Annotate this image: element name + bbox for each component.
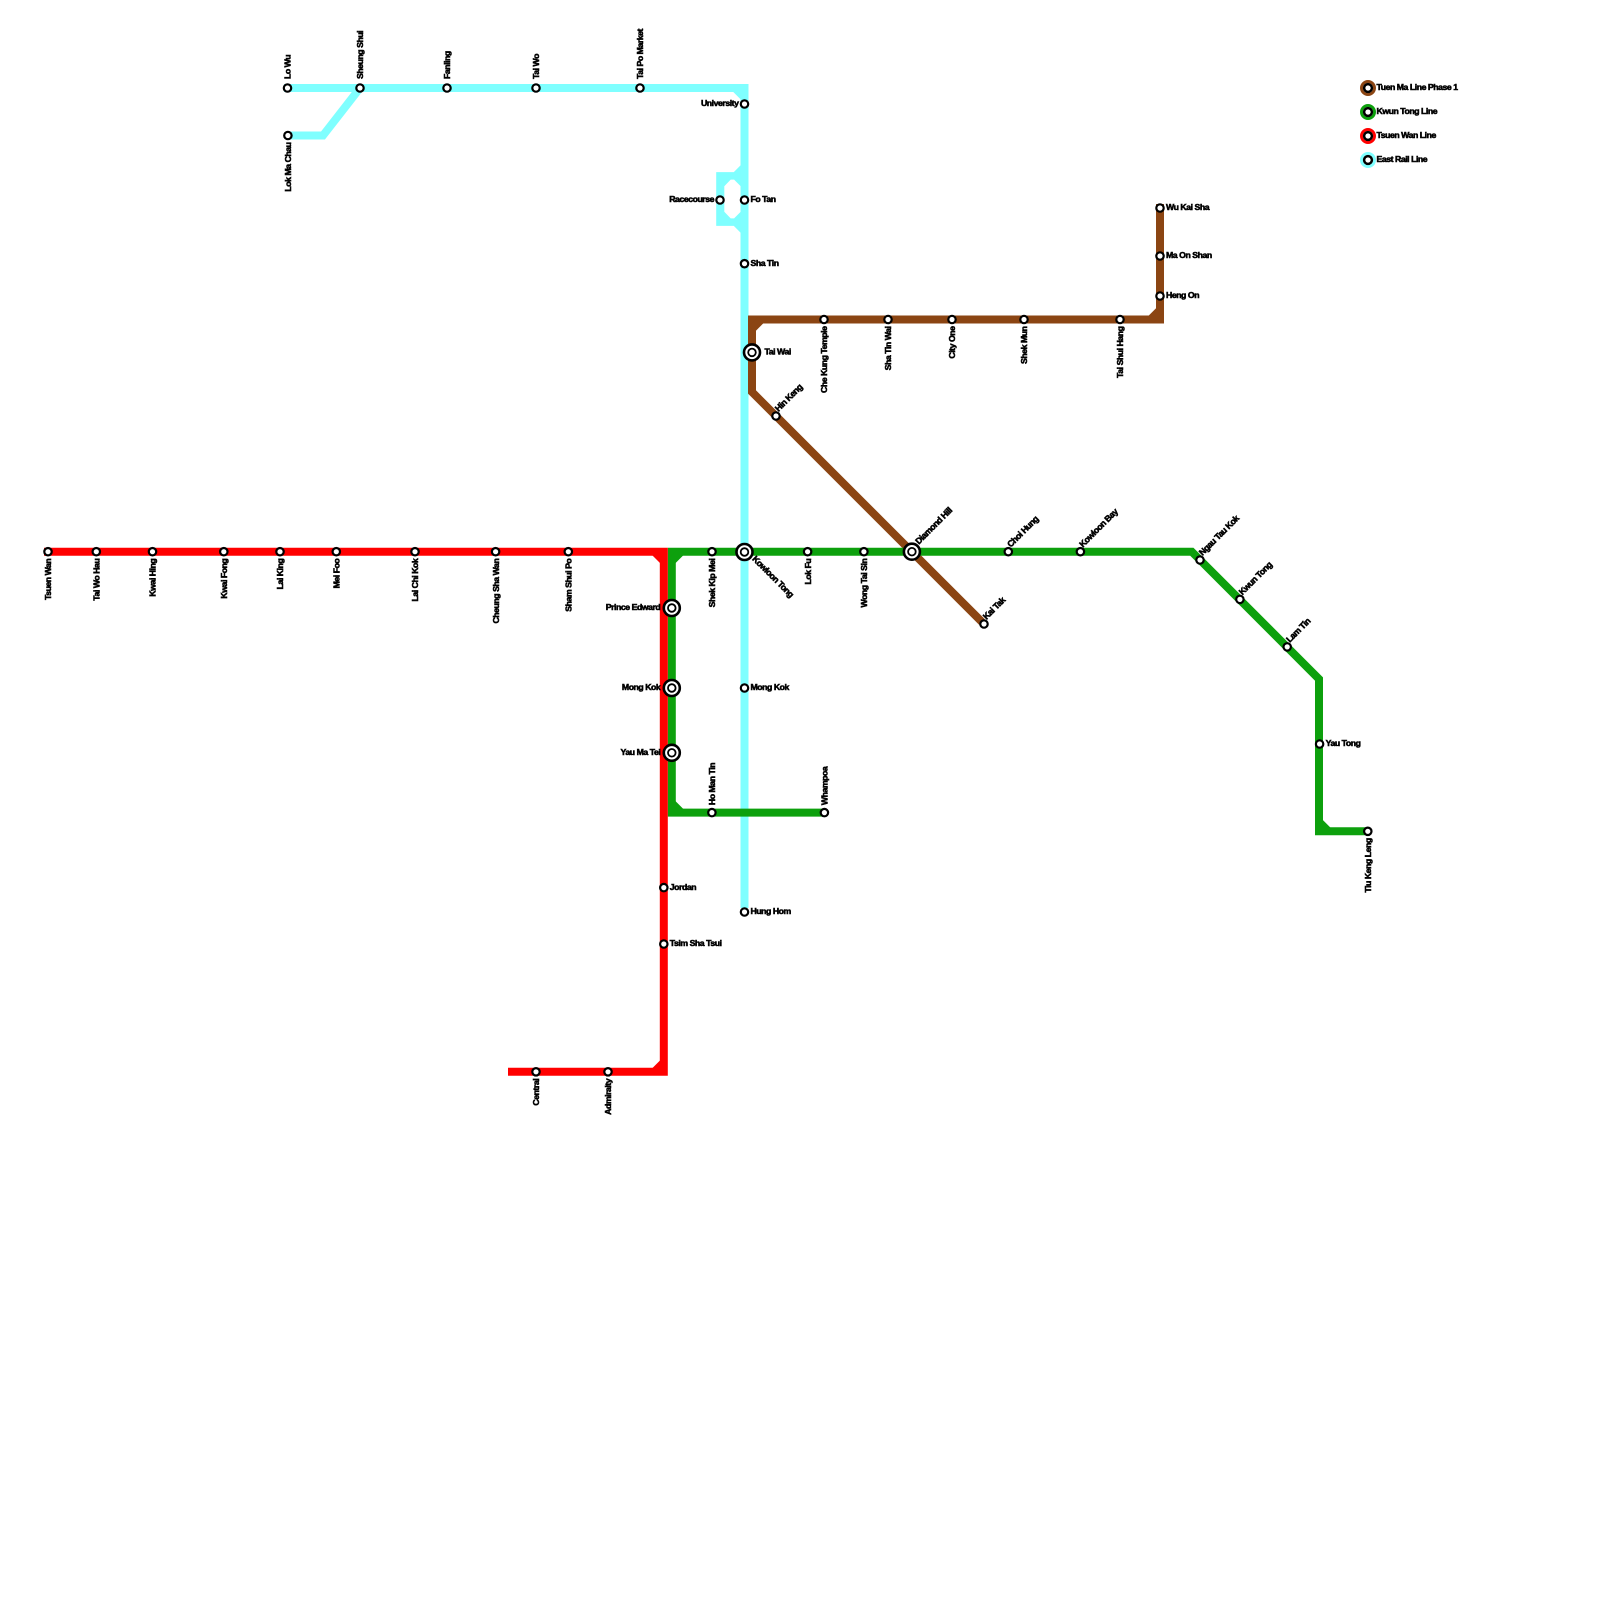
svg-text:Lai King: Lai King — [275, 559, 285, 590]
svg-text:Lok Fu: Lok Fu — [803, 559, 813, 585]
svg-text:Tsuen Wan Line: Tsuen Wan Line — [1377, 130, 1437, 140]
svg-text:Sham Shui Po: Sham Shui Po — [564, 559, 574, 612]
svg-text:Hung Hom: Hung Hom — [751, 906, 792, 916]
svg-text:Sha Tin: Sha Tin — [751, 258, 779, 268]
svg-text:Ngau Tau Kok: Ngau Tau Kok — [1197, 513, 1242, 558]
svg-text:Lok Ma Chau: Lok Ma Chau — [283, 142, 293, 191]
svg-text:Mong Kok: Mong Kok — [622, 682, 661, 692]
svg-text:Kwai Fong: Kwai Fong — [219, 559, 229, 599]
svg-text:Tuen Ma Line Phase 1: Tuen Ma Line Phase 1 — [1377, 82, 1459, 92]
svg-text:Shek Kip Mei: Shek Kip Mei — [707, 559, 717, 608]
svg-text:Whampoa: Whampoa — [820, 766, 830, 805]
svg-text:Tai Shui Hang: Tai Shui Hang — [1115, 326, 1125, 378]
svg-text:Ho Man Tin: Ho Man Tin — [707, 763, 717, 805]
svg-text:Diamond Hill: Diamond Hill — [913, 505, 954, 546]
svg-text:Wong Tai Sin: Wong Tai Sin — [859, 559, 869, 608]
svg-text:Kowloon Bay: Kowloon Bay — [1077, 506, 1120, 549]
svg-text:Sheung Shui: Sheung Shui — [355, 31, 365, 79]
svg-text:Ma On Shan: Ma On Shan — [1166, 250, 1212, 260]
svg-text:Heng On: Heng On — [1166, 290, 1199, 300]
svg-text:Yau Tong: Yau Tong — [1326, 738, 1361, 748]
svg-text:Tai Wo: Tai Wo — [531, 54, 541, 79]
svg-text:Tai Po Market: Tai Po Market — [635, 28, 645, 79]
svg-text:Lai Chi Kok: Lai Chi Kok — [410, 558, 420, 601]
svg-text:Che Kung Temple: Che Kung Temple — [819, 326, 829, 393]
svg-text:Hin Keng: Hin Keng — [773, 382, 805, 414]
svg-text:City One: City One — [947, 326, 957, 359]
svg-text:Fo Tan: Fo Tan — [751, 194, 776, 204]
svg-text:Kwai Hing: Kwai Hing — [148, 559, 158, 597]
svg-text:Wu Kai Sha: Wu Kai Sha — [1166, 202, 1210, 212]
svg-text:Jordan: Jordan — [670, 882, 696, 892]
svg-text:Choi Hung: Choi Hung — [1005, 514, 1040, 549]
svg-text:Fanling: Fanling — [442, 51, 452, 79]
svg-text:Lo Wu: Lo Wu — [283, 55, 293, 79]
svg-text:Sha Tin Wai: Sha Tin Wai — [883, 326, 893, 370]
svg-text:Tsuen Wan: Tsuen Wan — [43, 559, 53, 600]
svg-text:Shek Mun: Shek Mun — [1019, 326, 1029, 364]
svg-text:Cheung Sha Wan: Cheung Sha Wan — [491, 559, 501, 624]
svg-text:Yau Ma Tei: Yau Ma Tei — [621, 747, 661, 757]
svg-text:Lam Tin: Lam Tin — [1284, 616, 1312, 644]
svg-text:Tsim Sha Tsui: Tsim Sha Tsui — [670, 938, 722, 948]
svg-text:Kwun Tong Line: Kwun Tong Line — [1377, 106, 1438, 116]
svg-text:Admiralty: Admiralty — [603, 1078, 613, 1115]
svg-text:Tiu Keng Leng: Tiu Keng Leng — [1363, 838, 1373, 892]
svg-text:Tai Wai: Tai Wai — [765, 347, 791, 357]
svg-text:Tai Wo Hau: Tai Wo Hau — [92, 559, 102, 601]
svg-text:Kai Tak: Kai Tak — [981, 595, 1008, 622]
svg-text:East Rail Line: East Rail Line — [1377, 154, 1428, 164]
svg-text:University: University — [701, 98, 739, 108]
svg-text:Racecourse: Racecourse — [669, 194, 714, 204]
svg-text:Kowloon Tong: Kowloon Tong — [750, 554, 796, 600]
svg-text:Mong Kok: Mong Kok — [751, 682, 790, 692]
svg-text:Central: Central — [531, 1079, 541, 1106]
svg-text:Prince Edward: Prince Edward — [606, 602, 661, 612]
svg-text:Mei Foo: Mei Foo — [332, 559, 342, 589]
svg-text:Kwun Tong: Kwun Tong — [1237, 560, 1274, 597]
